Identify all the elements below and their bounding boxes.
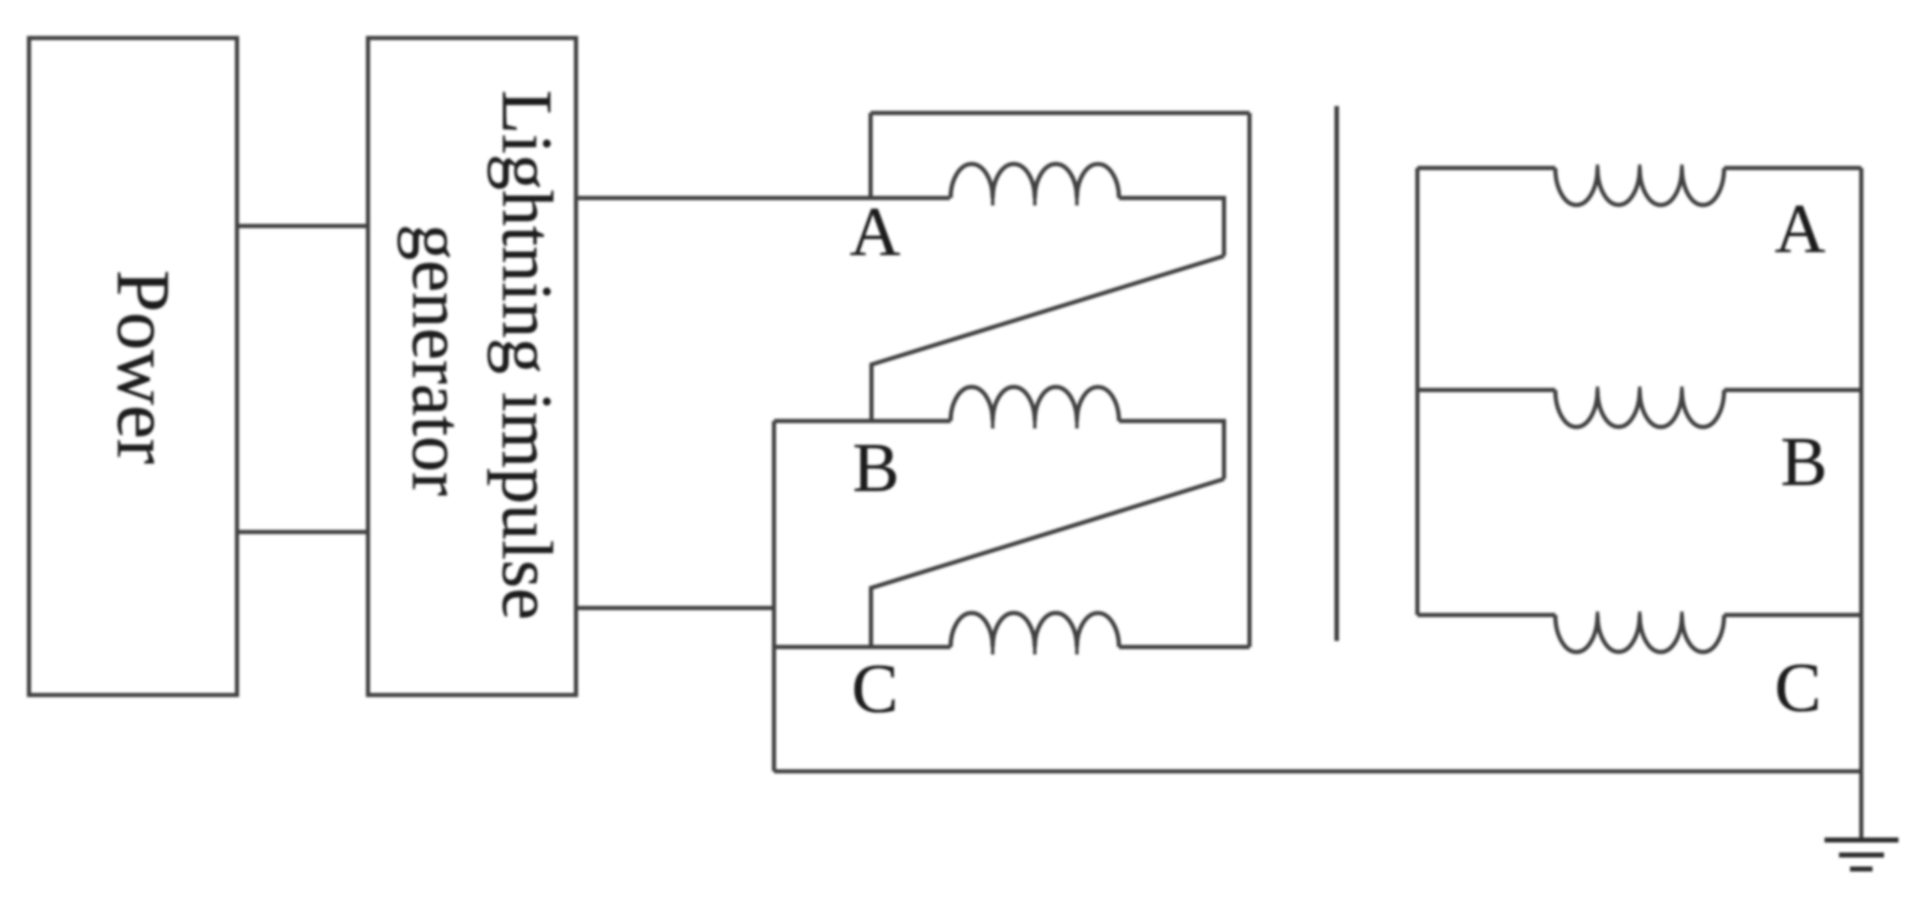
svg-text:C: C bbox=[852, 651, 899, 728]
ground bar 1 bbox=[1825, 838, 1899, 843]
ground stem bbox=[1859, 771, 1863, 839]
wire generator to node A bbox=[576, 196, 950, 200]
coil B valley dips bbox=[993, 421, 1077, 429]
secondary A wire right bbox=[1724, 166, 1861, 170]
secondary coil A valley ticks bbox=[1598, 165, 1682, 169]
winding L-B primary bbox=[951, 387, 1119, 421]
secondary left bus bbox=[1415, 168, 1419, 615]
secondary A wire left bbox=[1417, 166, 1555, 170]
coil A valley dips bbox=[993, 198, 1077, 206]
svg-text:Lightning impulse: Lightning impulse bbox=[487, 90, 567, 620]
svg-text:A: A bbox=[1775, 191, 1826, 268]
wire power-generator top bbox=[237, 224, 368, 228]
svg-text:B: B bbox=[853, 430, 900, 507]
winding L-C secondary bbox=[1555, 615, 1724, 652]
svg-text:A: A bbox=[850, 194, 901, 271]
secondary B wire left bbox=[1417, 388, 1555, 392]
winding L-A primary bbox=[951, 164, 1119, 198]
wire coil C to right side bbox=[1119, 645, 1250, 649]
coil C valley dips bbox=[993, 647, 1077, 655]
svg-text:Power: Power bbox=[101, 270, 185, 464]
ground bar 2 bbox=[1839, 853, 1884, 858]
wire bus to coil B bbox=[774, 419, 951, 423]
primary right side wire bbox=[1247, 113, 1251, 647]
left return bus bbox=[772, 421, 776, 771]
winding L-B secondary bbox=[1555, 390, 1724, 427]
winding L-A secondary bbox=[1555, 168, 1724, 205]
wire coil B to zigzag bbox=[1119, 421, 1224, 479]
secondary right bus bbox=[1859, 168, 1863, 771]
svg-text:generator: generator bbox=[397, 224, 477, 496]
wire generator to bottom bus bbox=[576, 606, 774, 610]
secondary B wire right bbox=[1724, 388, 1861, 392]
node A riser wire bbox=[868, 113, 872, 198]
secondary coil C valley ticks bbox=[1598, 612, 1682, 616]
svg-text:B: B bbox=[1781, 424, 1828, 501]
wire power-generator bottom bbox=[237, 530, 368, 534]
zigzag diagonal A-B bbox=[872, 256, 1225, 421]
secondary C wire left bbox=[1417, 613, 1555, 617]
transformer core bbox=[1334, 106, 1339, 641]
secondary coil B valley ticks bbox=[1598, 387, 1682, 391]
winding L-C primary bbox=[951, 613, 1119, 647]
wire coil A to zigzag bbox=[1119, 198, 1224, 256]
Lightning impulse generator box bbox=[368, 38, 576, 695]
wire bus to coil C bbox=[774, 645, 951, 649]
ground bar 3 bbox=[1850, 867, 1873, 872]
bottom return wire bbox=[774, 769, 1861, 773]
svg-text:C: C bbox=[1775, 650, 1822, 727]
secondary C wire right bbox=[1724, 613, 1861, 617]
Power box bbox=[29, 38, 237, 695]
zigzag diagonal B-C bbox=[871, 479, 1224, 647]
primary top wire bbox=[871, 111, 1250, 115]
